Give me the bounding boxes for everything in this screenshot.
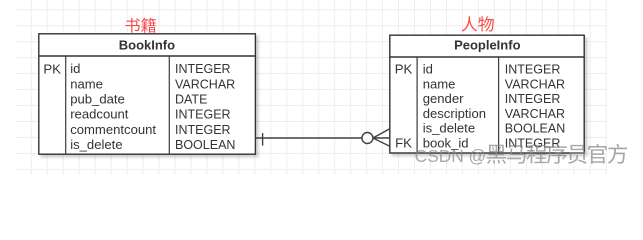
- BookInfo PK column divider: [65, 56, 67, 154]
- BookInfo field names: [70, 61, 156, 152]
- svg-text:PK: PK: [395, 62, 413, 77]
- svg-text:INTEGER: INTEGER: [175, 123, 231, 137]
- svg-text:VARCHAR: VARCHAR: [505, 107, 565, 121]
- svg-text:description: description: [423, 106, 486, 121]
- BookInfo type column divider: [168, 56, 170, 154]
- svg-text:gender: gender: [423, 91, 464, 106]
- svg-text:id: id: [423, 62, 433, 77]
- label 书籍: [125, 18, 155, 33]
- PeopleInfo PK column divider: [416, 57, 418, 153]
- table PeopleInfo: [390, 35, 584, 153]
- PeopleInfo field names: [423, 62, 486, 151]
- PeopleInfo field types: [505, 63, 565, 151]
- svg-text:is_delete: is_delete: [423, 121, 475, 136]
- svg-text:BOOLEAN: BOOLEAN: [175, 138, 235, 152]
- svg-text:INTEGER: INTEGER: [505, 137, 561, 151]
- svg-text:FK: FK: [395, 136, 412, 151]
- svg-text:INTEGER: INTEGER: [175, 108, 231, 122]
- one-side tick: [262, 133, 264, 146]
- svg-text:CSDN @: CSDN @: [415, 146, 486, 166]
- relationship wire BookInfo-PeopleInfo: [255, 137, 362, 139]
- svg-text:BOOLEAN: BOOLEAN: [505, 122, 565, 136]
- svg-text:id: id: [70, 61, 80, 76]
- svg-text:PeopleInfo: PeopleInfo: [454, 37, 521, 52]
- svg-text:VARCHAR: VARCHAR: [175, 77, 235, 91]
- svg-text:VARCHAR: VARCHAR: [505, 77, 565, 91]
- svg-text:name: name: [70, 76, 103, 91]
- table BookInfo: [39, 34, 256, 154]
- zero-many circle: [362, 133, 373, 144]
- svg-text:DATE: DATE: [175, 93, 207, 107]
- BookInfo header divider: [39, 55, 256, 57]
- watermark CJK: [487, 144, 627, 164]
- BookInfo field types: [175, 62, 235, 152]
- label 人物: [462, 16, 494, 31]
- svg-text:PK: PK: [43, 61, 61, 76]
- svg-text:INTEGER: INTEGER: [505, 63, 561, 77]
- svg-text:readcount: readcount: [70, 107, 129, 122]
- svg-text:name: name: [423, 76, 456, 91]
- crow's foot: [373, 129, 390, 147]
- svg-text:INTEGER: INTEGER: [505, 92, 561, 106]
- svg-text:is_delete: is_delete: [70, 137, 122, 152]
- svg-text:commentcount: commentcount: [70, 122, 156, 137]
- PeopleInfo header divider: [390, 56, 584, 58]
- PeopleInfo type column divider: [498, 57, 500, 153]
- svg-text:pub_date: pub_date: [70, 92, 125, 107]
- svg-text:INTEGER: INTEGER: [175, 62, 231, 76]
- svg-text:BookInfo: BookInfo: [119, 38, 175, 53]
